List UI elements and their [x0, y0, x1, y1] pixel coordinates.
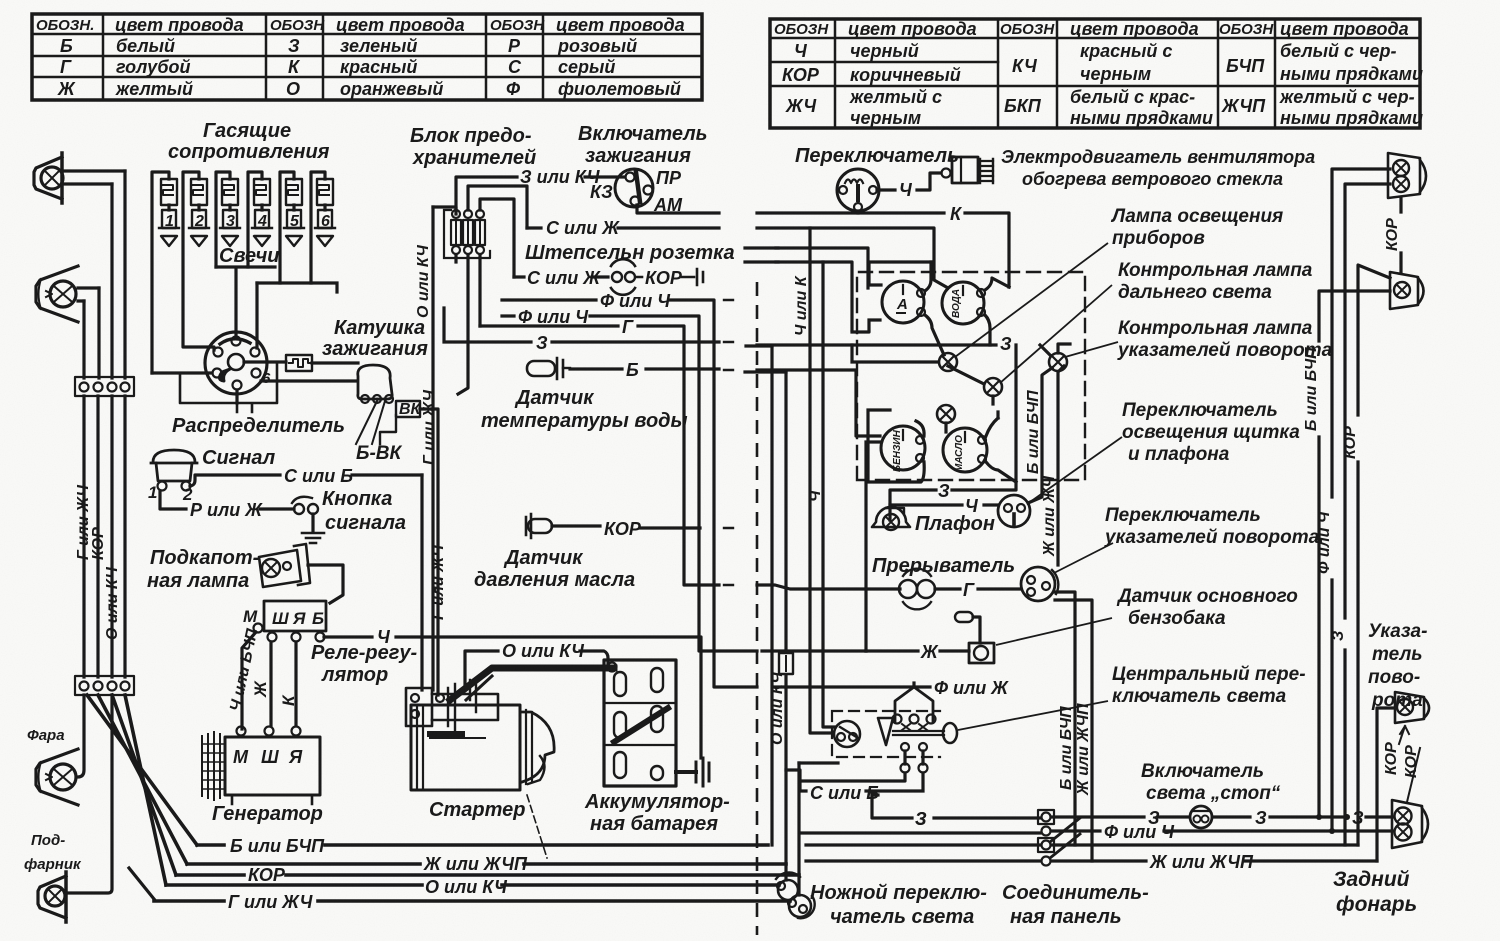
distributor body [205, 332, 267, 394]
relay-regulator box [264, 601, 326, 631]
ammeter А [882, 281, 925, 323]
panel light lamp 2 [937, 405, 955, 423]
С или Б vertical down [420, 475, 423, 690]
lower terminals [901, 743, 909, 751]
wires from second lamp [1319, 291, 1390, 817]
horn [151, 450, 197, 491]
wires from headlamp [78, 288, 99, 301]
turn signal switch [1021, 567, 1058, 601]
turn indicator lamp (panel) [1049, 353, 1067, 371]
Ж wire to sender [866, 649, 969, 652]
connector block upper [75, 377, 134, 396]
vertical Ч или К [810, 228, 830, 733]
plafond dome light [872, 507, 910, 530]
bottom right feeder lines [800, 831, 1040, 834]
rear tail lamp [1392, 800, 1428, 848]
Г wire flasher to turn switch [935, 587, 1021, 590]
КОР arrows to lamps [1399, 726, 1409, 744]
Ч wire from relay to battery area [324, 637, 701, 758]
Ф или Ч line 2 [502, 316, 866, 651]
fuel gauge БЕНЗИН [881, 426, 925, 470]
lever + knob [893, 731, 944, 735]
Ж или ЖЧП line right [1052, 859, 1377, 862]
relay М terminal [254, 624, 263, 633]
headlamp (lower) [36, 749, 78, 805]
vertical О или КЧ with fuse to foot switch [784, 372, 787, 880]
stop light switch [1190, 806, 1212, 828]
Б или БЧП vertical upper [1028, 368, 1052, 503]
ВК terminal box [396, 401, 420, 417]
foot switch risers [797, 763, 800, 895]
plafond switch [998, 495, 1030, 527]
Б или БЧП vertical lower [1054, 592, 1075, 845]
headlamp (upper) [36, 266, 78, 322]
З wire from switch to bottom bus [872, 795, 1040, 818]
resistor column 1 [152, 172, 177, 373]
coil output wires down [420, 409, 438, 695]
Ф или Ж peak wire [912, 683, 915, 687]
panel light lamp 1 [939, 353, 957, 371]
dropping resistors (6) with brackets [152, 172, 333, 373]
dimmer relay circle [834, 721, 860, 747]
fan diagonals to bottom bus [87, 695, 197, 845]
oil gauge МАСЛО [943, 428, 987, 472]
switch body pentagon [895, 687, 933, 722]
З line [444, 308, 996, 345]
lamp feeds at top [1040, 344, 1070, 355]
foot dimmer switch [776, 872, 815, 918]
thick battery cable [450, 668, 614, 700]
callout lines [955, 243, 1108, 357]
fuse feeds up [456, 177, 625, 210]
left vertical harness (4 wires) [84, 171, 125, 378]
heater motor [942, 157, 994, 183]
fuel tank sender [955, 612, 994, 663]
collector wires to distributor [216, 267, 275, 348]
Б-ВК callout diagonal [356, 399, 385, 444]
КОР line / oil sensor [526, 514, 552, 538]
second lamp [1390, 272, 1424, 309]
central light switch assembly [786, 687, 957, 791]
АМ wire to К line [637, 205, 1009, 287]
underhood lamp [259, 544, 310, 587]
ignition coil [358, 365, 393, 403]
line to КОР vertical [1052, 843, 1358, 846]
wire lamp to relay [308, 565, 343, 603]
horn button [292, 497, 318, 531]
connector block lower [75, 676, 134, 695]
suppressor to coil [244, 360, 286, 363]
switch to motor wire [877, 173, 941, 190]
Ж или ЖЧП vertical upper [1058, 366, 1064, 565]
socket С или Ж / КОР [514, 275, 608, 278]
wire color legend table right [770, 19, 1420, 128]
О или КЧ wire to solenoid [465, 651, 608, 690]
high beam indicator lamp [984, 378, 1002, 396]
second wire distributor to coil bottom [261, 379, 356, 382]
Ф или Ч line [1052, 829, 1392, 832]
С или Ж line [527, 228, 948, 288]
distributor frame [180, 362, 277, 412]
З line right of connector to stop switch and tail lamp [1052, 815, 1392, 818]
triangle [878, 718, 893, 745]
relay bottom terminals [268, 633, 277, 642]
wire horn to С или Б line [190, 475, 422, 486]
resistor column 3 [216, 172, 238, 267]
КОР link to second lamp [1399, 198, 1402, 272]
dashed instrument panel box [857, 272, 1085, 480]
left stubs into boundary [745, 370, 786, 373]
generator [202, 727, 320, 805]
ignition switch [615, 169, 653, 207]
dashed firewall boundary vertical [756, 282, 759, 935]
vertical Ч [823, 262, 835, 727]
Ж или ЖЧП vertical lower [1055, 600, 1092, 861]
wire color legend table left [32, 14, 702, 100]
Ф или Ч line 1 [502, 300, 930, 687]
dashed housing [832, 711, 940, 757]
wire lower marker feed [66, 695, 112, 893]
distributor terminals [213, 337, 261, 390]
junction dots [1316, 814, 1322, 820]
rear turn indicator lamp [1395, 692, 1429, 723]
vertical х770 [770, 346, 773, 845]
flasher прерыватель [899, 569, 935, 610]
front marker lamp (bottom left) [38, 872, 66, 922]
starter motor body [411, 705, 554, 790]
К wire from switch bottom [856, 211, 859, 213]
Б line / water temp sensor [527, 358, 570, 379]
resistor column 6 [311, 172, 333, 283]
resistor column 4 [248, 172, 270, 267]
vertical harness between connectors [84, 396, 125, 677]
wires linking gauges and lamps [852, 345, 938, 362]
crossing stubs on dashed boundary [745, 248, 778, 262]
water temp gauge ВОДА [942, 282, 985, 324]
connector panel terminals [1038, 810, 1080, 866]
resistor column 2 [183, 172, 214, 350]
fuse bottom tails [458, 256, 468, 394]
bottom bus lines left [197, 843, 768, 847]
starter solenoid bracket [406, 688, 432, 726]
wires from top lamp [1332, 169, 1390, 831]
rear lamp cluster top right (front turn/marker) [1388, 153, 1426, 198]
wire lower headlamp feed [78, 695, 84, 777]
gauge А hook wires [925, 262, 944, 355]
battery [604, 660, 676, 786]
spark plugs (6) [159, 205, 335, 246]
battery ground clamp [676, 770, 696, 774]
horn terminal 1 down to Р или Ж wire [160, 491, 294, 509]
ground symbol [302, 533, 324, 543]
Г line [480, 326, 900, 589]
resistor column 5 [280, 172, 302, 283]
starter solenoid body [432, 694, 498, 720]
wire from distributor left [152, 371, 212, 374]
heater switch [837, 169, 879, 211]
callout line from starter to bottom label [527, 795, 547, 858]
Ч wire to plafond switch [890, 503, 997, 506]
wire from marker lamp to vertical bus [62, 171, 125, 184]
fuse block [444, 210, 490, 258]
front marker lamp (top left) [34, 153, 63, 203]
